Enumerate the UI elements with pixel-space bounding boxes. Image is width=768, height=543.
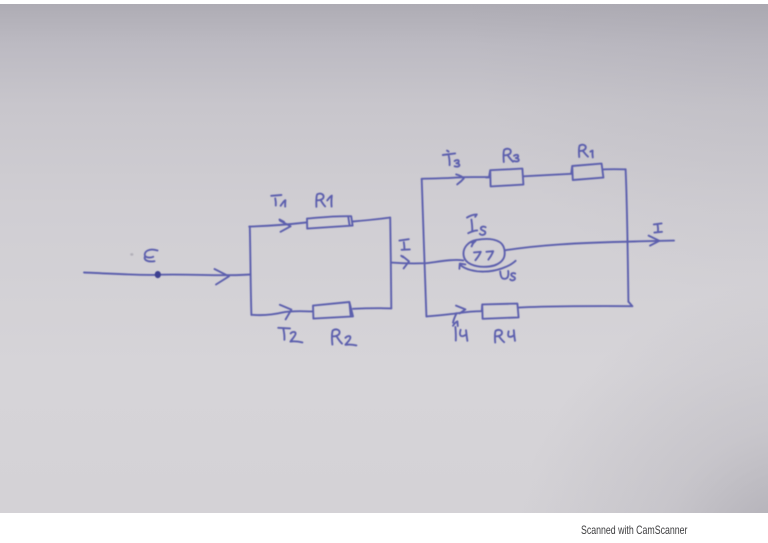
label I output [654, 223, 662, 232]
chevrons inside source [474, 251, 493, 260]
wire bottom-right [519, 302, 633, 308]
arrow on source contour [472, 241, 476, 246]
faint speck left of epsilon [130, 253, 133, 256]
label I2 [278, 328, 302, 343]
wire left-box top branch [249, 223, 306, 227]
wire top-right corner [603, 168, 625, 170]
label I1 [271, 195, 285, 207]
arrow I1 [280, 220, 291, 232]
node dot on input wire [155, 271, 161, 278]
footer text Scanned with CamScanner [581, 523, 687, 537]
wire left-box right vertical [390, 218, 391, 309]
resistor R4 [482, 304, 519, 319]
current source Is ellipse [463, 239, 504, 267]
label Us [500, 271, 515, 280]
right-box right vertical [626, 169, 629, 301]
wire left-box top-right corner [353, 218, 391, 222]
arrow I2 [280, 305, 292, 320]
wire R3 to R1b [523, 174, 571, 177]
label R4 [495, 330, 515, 343]
resistor R3 [486, 169, 523, 187]
label I middle [399, 239, 409, 250]
wire middle link [391, 260, 463, 263]
arrow I middle [401, 256, 409, 269]
arrow on arc Us [459, 264, 465, 269]
label R3 [503, 149, 518, 162]
wire left-box bottom-right [353, 307, 391, 310]
resistor R2 [313, 302, 353, 319]
wire main input [84, 273, 250, 276]
arrow I output [649, 236, 660, 246]
label epsilon [145, 250, 158, 262]
arc Us [460, 261, 515, 272]
arrow I3 [456, 174, 464, 184]
right-box left vertical [422, 179, 427, 317]
resistor R1b (top right) [571, 164, 603, 180]
wire left-box bottom branch [251, 311, 313, 315]
right-box bottom branch wire [426, 311, 481, 316]
label Is [467, 214, 486, 234]
label R2 [332, 329, 356, 345]
label R1b [579, 145, 593, 158]
label I4 [453, 321, 467, 340]
wire left-box left vertical [250, 227, 252, 315]
right-box top branch wire [422, 177, 489, 179]
label R1 [316, 194, 332, 207]
resistor R1 [307, 216, 353, 228]
arrow on input wire [215, 269, 230, 285]
label I3 [443, 151, 460, 167]
wire source to output [506, 241, 674, 251]
arrow I4 [453, 306, 465, 323]
